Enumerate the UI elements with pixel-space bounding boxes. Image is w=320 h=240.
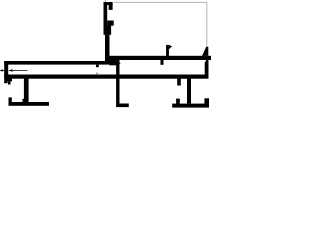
glazing post top bar <box>104 2 113 5</box>
snap tab flag <box>169 45 172 49</box>
bottom-left web <box>24 79 29 103</box>
screw channel upper tick <box>96 65 99 68</box>
snap tab <box>166 45 169 56</box>
glazing post lip <box>109 2 113 10</box>
bottom-right foot band <box>172 104 209 108</box>
bottom-left hook stub <box>4 79 7 84</box>
screw channel lower tick <box>96 73 98 75</box>
bottom-right foot left stub <box>176 99 180 104</box>
dimension leader outside <box>0 69 4 72</box>
box left wall <box>4 61 8 79</box>
bottom-left hook arm <box>8 79 13 82</box>
right clip triangle <box>202 47 208 56</box>
right end wall <box>205 60 209 79</box>
junction arrow block <box>109 60 116 65</box>
mid foot arm <box>116 104 129 108</box>
top tick above post <box>104 0 107 2</box>
bottom-left web bump <box>22 99 24 102</box>
bottom-left band <box>9 102 50 106</box>
stub below band <box>177 79 181 86</box>
glazing post protrusion <box>107 21 114 26</box>
dimension arrowhead outside <box>2 69 5 72</box>
box top band <box>4 61 109 65</box>
bottom-left band up-stub <box>9 97 12 102</box>
bottom-right web <box>187 79 191 104</box>
junction arrow tip <box>116 61 121 66</box>
glazing post stem <box>105 35 110 62</box>
dimension arrowhead inside <box>8 69 13 72</box>
mid foot vertical <box>116 60 119 104</box>
bottom-right foot right stub <box>204 98 209 104</box>
panel outline top thin line <box>114 2 207 3</box>
glazing post upper body <box>104 2 108 26</box>
dimension leader inside <box>13 69 28 72</box>
panel outline right thin line <box>206 2 207 47</box>
bottom-left hook tail <box>8 81 11 84</box>
main bottom band <box>4 75 208 79</box>
bar tick <box>161 60 164 65</box>
glazing post wide block <box>104 26 112 35</box>
right bar (sill top flange) <box>109 56 211 60</box>
